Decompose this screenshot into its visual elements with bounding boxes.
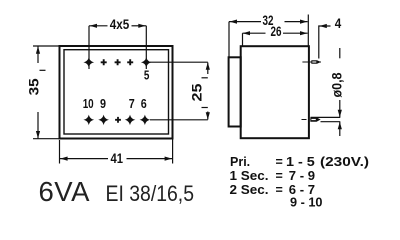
side view main body rectangle [241, 46, 309, 138]
pin diameter leader with down arrow [339, 100, 341, 117]
pin 2 front view (plus) [101, 59, 107, 65]
svg-text:1 - 5: 1 - 5 [286, 155, 315, 169]
dimension 41 left extension line [59, 140, 61, 164]
side view bottom pin body [310, 117, 320, 121]
svg-text:6VA: 6VA [39, 176, 91, 207]
svg-text:EI 38/16,5: EI 38/16,5 [106, 181, 195, 206]
dimension 41 right extension line [172, 139, 174, 164]
dimension 4 corner leader and extension to top pin [319, 26, 331, 59]
wire: 32/26 right extension line above side view [307, 15, 309, 47]
svg-text:1 Sec.: 1 Sec. [230, 169, 269, 183]
dimension 35 top extension line [33, 45, 60, 47]
svg-text:9: 9 [100, 96, 106, 111]
wire: pin diameter lower extension line [321, 121, 341, 123]
svg-text:5: 5 [144, 67, 150, 82]
pin 9 front view (star) [98, 115, 109, 126]
wire: 25 dimension top leader from pin 5 [150, 61, 208, 63]
side view top pin body [311, 60, 321, 64]
pin 10 front view (star) [83, 115, 94, 126]
svg-text:=: = [276, 169, 283, 183]
svg-text:ø0,8: ø0,8 [329, 72, 345, 97]
dimension 25 vertical line lower segment with down arrow [207, 112, 209, 120]
dimension 4x5 line right segment with arrow [132, 25, 147, 27]
dimension 25 leader dash above text [202, 77, 208, 79]
dimension 35 vertical line lower segment with down arrow [37, 112, 39, 138]
wire: 4x5 dimension right extension line through pin 5 [145, 26, 147, 69]
dimension 35 bottom extension line [33, 138, 60, 140]
dimension 25 leader dash below text [202, 107, 208, 109]
svg-text:(230V.): (230V.) [320, 155, 369, 169]
dimension 26 line left segment with arrow [243, 32, 266, 34]
svg-text:10: 10 [83, 96, 94, 111]
pin 4 front view (plus) [127, 59, 133, 65]
dimension 4x5 line left segment with arrow [89, 25, 108, 27]
svg-text:Pri.: Pri. [230, 155, 250, 169]
svg-text:2 Sec.: 2 Sec. [230, 183, 269, 197]
pin 6 front view (star) [140, 115, 151, 126]
dimension 32 line right segment with arrow [285, 21, 308, 23]
dimension 41 line right segment with arrow [127, 158, 173, 160]
dimension 35 leader dash above text [40, 69, 46, 71]
svg-text:35: 35 [26, 78, 42, 95]
dimension 32 line left segment with arrow [229, 21, 261, 23]
dimension 26 left extension corner line [242, 33, 244, 46]
svg-text:41: 41 [111, 150, 124, 166]
svg-text:=: = [276, 155, 283, 169]
pin 7 front view (star) [125, 115, 136, 126]
dimension 35 vertical line upper segment with up arrow [37, 47, 39, 64]
wire: pin diameter upper extension line [311, 116, 341, 118]
transformer case front view inner rectangle [64, 50, 169, 134]
leader dash above pin diameter label [339, 48, 341, 58]
side view top pin centerline [302, 61, 321, 63]
svg-text:26: 26 [271, 23, 282, 39]
svg-text:4x5: 4x5 [110, 16, 130, 32]
pin 3 front view (plus) [115, 59, 121, 65]
transformer case front view outer rectangle [60, 46, 173, 139]
svg-text:7 - 9: 7 - 9 [289, 169, 315, 183]
dimension 41 line left segment with arrow [60, 158, 108, 160]
wire: 25 dimension bottom leader from pin 6 [150, 119, 208, 121]
pin diameter leader with up arrow [339, 122, 341, 136]
pin 1 front view (star) [83, 57, 94, 68]
pin 5 front view (star) [141, 57, 152, 68]
side view bobbin flange rectangle [229, 57, 241, 126]
svg-text:25: 25 [189, 83, 205, 101]
svg-text:4: 4 [335, 15, 342, 31]
dimension 32 left extension corner line [228, 22, 230, 57]
svg-text:7: 7 [129, 96, 135, 111]
pin 8 position front view (small plus) [115, 117, 121, 123]
svg-text:=: = [276, 183, 283, 197]
side view bottom pin centerline dash [302, 119, 307, 121]
svg-text:6: 6 [141, 96, 147, 111]
dimension 25 vertical line upper segment with up arrow [207, 63, 209, 75]
svg-text:9 - 10: 9 - 10 [290, 196, 323, 210]
wire: 4x5 dimension left extension line through pin 1 [88, 26, 90, 69]
dimension 26 line right segment with arrow [283, 32, 308, 34]
